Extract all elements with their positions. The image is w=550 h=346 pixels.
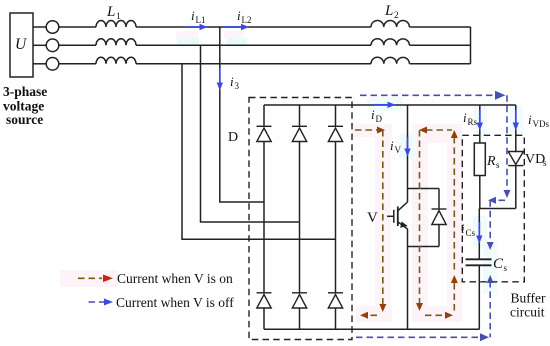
wire phase1 L2 to right end [410,26,471,28]
terminal circle 3 [46,58,59,71]
inductor L1 phase1 [96,21,136,28]
red loop B right vertical upper [453,137,455,273]
ghost artifact bands [60,31,523,322]
drop wire phase1 to bridge [220,27,264,202]
blue arrowhead into Cs down [487,242,494,250]
wire box to terminal 2 [33,44,46,46]
arrow iD [374,102,396,108]
arrow iV [404,137,410,157]
red loop A vertical [382,130,384,304]
diode D1 upper leg1 [257,126,272,141]
red arrowhead loop B down [416,303,423,311]
red arrowhead loop A left [360,312,368,319]
svg-text:D: D [376,114,383,124]
svg-text:circuit: circuit [510,305,545,320]
wire phase2 to L1 [59,44,96,46]
freewheel diode of V [432,209,447,225]
drop wire phase3 to bridge [182,64,336,239]
svg-text:D: D [228,130,238,145]
blue arrowhead elbow left [488,197,496,204]
switch leg lower wire [407,229,409,329]
wire phase1 to L1 [59,26,96,28]
Rs branch upper wire [479,105,481,143]
freewheel branch bottom wire [408,246,440,248]
wire box to terminal 1 [33,26,46,28]
svg-text:Current when V is on: Current when V is on [117,271,233,286]
svg-text:i: i [371,107,375,122]
legend blue dashed arrow [89,299,114,306]
terminal circle 2 [46,39,59,52]
resistor Rs [474,143,485,176]
VDs branch lower wire [515,166,517,209]
svg-text:Cs: Cs [466,228,476,238]
freewheel branch lower wire [438,225,440,247]
blue arrowhead Cs bottom up [487,275,494,283]
svg-text:1: 1 [116,12,121,22]
arrow iCs [476,222,482,244]
svg-text:s: s [496,160,500,170]
svg-text:3: 3 [235,81,240,91]
svg-text:Rs: Rs [468,117,478,127]
svg-text:i: i [461,221,465,236]
svg-text:Current when V is off: Current when V is off [116,295,234,310]
inductor L2 phase3 [371,57,409,63]
svg-text:i: i [528,112,532,127]
svg-text:s: s [504,263,508,273]
transistor V (IGBT) [387,202,408,229]
buffer circuit box [462,135,524,281]
diode D3 upper leg3 [328,126,343,141]
bridge leg 3 [335,105,337,329]
red loop A top segment [355,129,377,131]
red loop B bottom segment [425,314,445,316]
svg-text:i: i [191,8,195,23]
red loop B top segment [426,129,452,131]
diode D2 upper leg2 [292,126,307,141]
wire phase3 L1 to L2 [136,63,371,65]
Cs branch lower wire [478,265,480,329]
svg-text:Buffer: Buffer [511,291,546,306]
terminal circle 1 [46,21,59,34]
Cs branch upper wire [478,209,480,260]
red loop A bottom segment [368,314,377,316]
red arrowhead loop A down [379,304,386,312]
dc bottom bus [264,328,480,330]
inductor L2 phase2 [371,39,409,45]
bridge leg 2 [299,105,301,329]
svg-text:i: i [463,110,467,125]
wire phase2 L1 to L2 [136,44,371,46]
svg-text:C: C [493,256,504,272]
Rs branch lower wire [479,176,481,209]
svg-text:L: L [106,4,115,20]
wire phase1 L1 to L2 [136,26,371,28]
diode D4 lower leg1 [257,293,272,308]
inductor L2 phase1 [371,21,409,28]
red arrowhead loop B up top [451,130,458,138]
svg-text:i: i [230,74,234,89]
svg-text:s: s [543,158,547,168]
svg-text:V: V [367,210,378,226]
legend red dashed arrow [78,275,113,283]
svg-text:VDs: VDs [533,119,550,129]
blue path Cs lower vertical [489,281,491,337]
svg-text:L1: L1 [196,15,206,25]
capacitor Cs plate top [466,258,492,260]
arrow iRs [477,110,483,131]
freewheel branch top wire [408,188,440,190]
capacitor Cs plate bottom [466,264,492,266]
inductor L1 phase3 [96,57,136,63]
bridge leg 1 [263,105,265,329]
svg-text:i: i [390,138,394,153]
VDs branch upper wire [515,105,517,152]
blue arrowhead elbow down [504,190,511,198]
svg-text:i: i [237,8,241,23]
red loop B left vertical [419,130,421,303]
wire phase2 L2 to right end [410,44,471,46]
wire phase3 to L1 [59,63,96,65]
drop wire phase2 to bridge [201,45,300,222]
svg-text:2: 2 [394,11,399,21]
freewheel branch right wire [438,189,440,210]
red arrowhead loop B right [445,312,453,319]
arrow iL2 [223,24,249,30]
svg-text:L2: L2 [242,15,252,25]
rectifier box D [249,98,352,340]
diode D5 lower leg2 [292,293,307,308]
Rs VDs join wire [480,208,516,210]
svg-text:U: U [15,36,28,53]
blue arrowhead top right [495,91,506,100]
diode VDs [508,152,523,166]
wire phase3 L2 to right end [410,63,471,65]
blue path into Cs vertical [489,200,491,243]
svg-text:L: L [384,3,393,19]
svg-text:R: R [486,154,496,169]
svg-text:source: source [6,112,43,127]
blue path right vertical [506,95,508,191]
blue path top segment [360,94,496,96]
svg-text:V: V [395,145,402,155]
switch leg upper wire [407,105,409,202]
inductor L1 phase2 [96,39,136,45]
red arrowhead loop B up mid [451,275,458,283]
red arrowhead loop A right [377,127,385,134]
blue path bottom segment [356,336,482,338]
red loop B right vertical lower [453,283,455,313]
red arrowhead loop B left [419,127,427,134]
arrow i3 [217,68,223,91]
arrow iL1 [185,24,208,30]
svg-text:3-phase: 3-phase [3,84,47,99]
source box U [10,13,33,77]
right termination vertical [470,27,472,64]
blue path elbow horizontal [495,199,505,201]
wire box to terminal 3 [33,63,46,65]
diode D6 lower leg3 [328,293,343,308]
dc top bus [264,104,516,106]
blue arrowhead bottom right [480,333,489,341]
arrow iVDs [513,110,519,131]
